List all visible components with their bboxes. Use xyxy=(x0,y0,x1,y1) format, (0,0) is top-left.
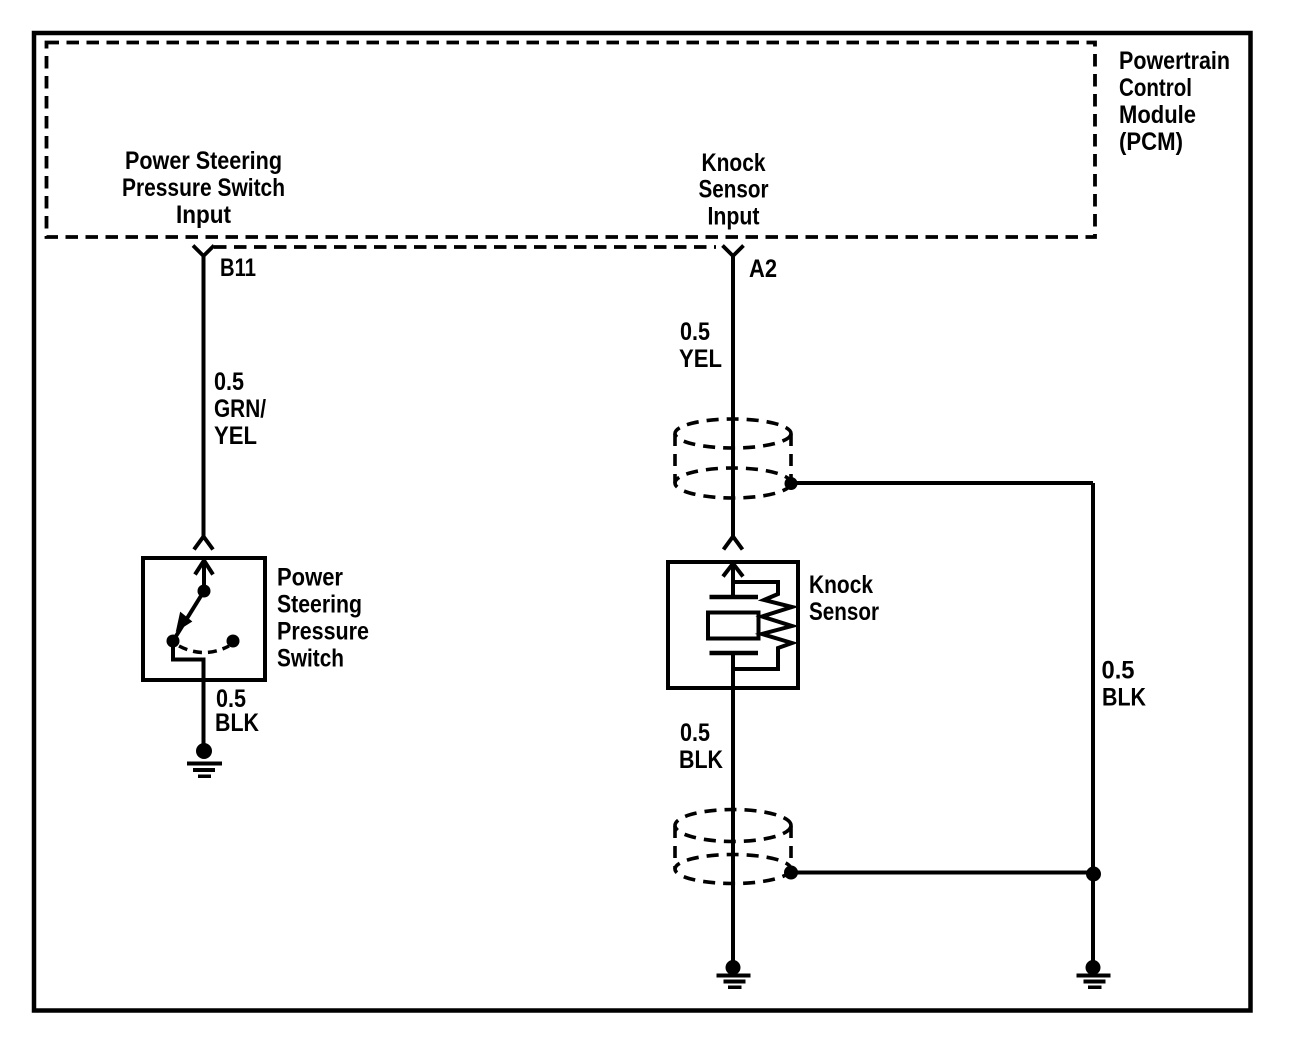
wire B11 to switch xyxy=(202,256,206,536)
svg-text:Switch: Switch xyxy=(277,645,344,673)
ground G1 xyxy=(187,743,222,778)
svg-text:0.5: 0.5 xyxy=(680,318,710,346)
svg-text:Input: Input xyxy=(176,201,232,229)
switch arrow to box top xyxy=(202,562,206,591)
svg-text:0.5: 0.5 xyxy=(214,368,244,396)
label 0.5 BLK right xyxy=(1102,657,1147,712)
svg-text:0.5: 0.5 xyxy=(1102,657,1135,685)
svg-text:Pressure Switch: Pressure Switch xyxy=(122,174,285,202)
switch contact dot upper xyxy=(198,585,211,598)
knock sensor B box xyxy=(668,562,798,688)
svg-text:Control: Control xyxy=(1119,74,1192,102)
svg-text:BLK: BLK xyxy=(679,746,723,774)
piezo bottom plate xyxy=(710,651,759,656)
svg-text:YEL: YEL xyxy=(214,422,257,450)
ground G3 (right) xyxy=(1077,960,1111,989)
svg-text:GRN/: GRN/ xyxy=(214,395,266,423)
shield connector C1 (upper dashed cylinder) xyxy=(675,419,791,498)
svg-text:(PCM): (PCM) xyxy=(1119,128,1183,156)
svg-text:BLK: BLK xyxy=(1102,684,1146,712)
junction dot on shield C2 xyxy=(784,866,798,880)
wire from bottom plate through box bottom xyxy=(731,653,735,810)
shield connector C2 (lower dashed cylinder) xyxy=(675,810,791,884)
label Power Steering Pressure Switch xyxy=(277,564,369,673)
wire from C2 right to junction xyxy=(791,871,1093,875)
label Knock Sensor Input xyxy=(699,149,769,231)
svg-text:Power Steering: Power Steering xyxy=(125,147,282,175)
wire A2 to knock sensor xyxy=(731,256,735,536)
svg-text:Module: Module xyxy=(1119,101,1196,129)
piezo top plate xyxy=(710,595,759,600)
svg-text:0.5: 0.5 xyxy=(680,719,710,747)
wire label 0.5 GRN/YEL xyxy=(214,368,266,450)
switch internal wire to box bottom xyxy=(173,646,204,680)
connector chevron above switch xyxy=(194,537,213,550)
svg-text:Sensor: Sensor xyxy=(809,598,879,626)
knock sensor arrow to box top xyxy=(731,565,735,597)
svg-text:Powertrain: Powertrain xyxy=(1119,47,1230,75)
wire label 0.5 YEL xyxy=(679,318,722,373)
junction dot right xyxy=(1086,867,1101,882)
wire through C2 down to ground xyxy=(731,810,735,962)
wire from C1 right to vertical run xyxy=(791,481,1093,485)
switch movable arm with arrowhead xyxy=(173,591,204,641)
svg-text:Power: Power xyxy=(277,564,343,592)
switch S1 Power Steering Pressure Switch box xyxy=(143,558,265,680)
pin A2 connector Y xyxy=(723,246,744,257)
svg-text:Sensor: Sensor xyxy=(699,176,769,204)
piezo crystal rectangle xyxy=(708,613,759,639)
connector dashed line between pins B11 and A2 xyxy=(214,245,716,249)
connector chevron above knock sensor xyxy=(724,537,743,550)
svg-text:B11: B11 xyxy=(220,254,256,282)
wire junction to ground right xyxy=(1091,874,1095,962)
svg-text:A2: A2 xyxy=(749,255,777,283)
svg-text:Input: Input xyxy=(708,203,761,231)
vertical wire right side xyxy=(1091,483,1095,873)
label Knock Sensor xyxy=(809,571,879,626)
label Power Steering Pressure Switch Input xyxy=(122,147,285,229)
svg-text:Knock: Knock xyxy=(809,571,873,599)
switch contact dot lower-left xyxy=(167,635,180,648)
svg-text:Steering: Steering xyxy=(277,591,362,619)
label Powertrain Control Module (PCM) xyxy=(1119,47,1230,156)
svg-text:BLK: BLK xyxy=(215,709,259,737)
junction dot on shield C1 xyxy=(785,477,798,490)
pin B11 connector Y xyxy=(193,246,214,257)
wire switch to ground xyxy=(202,680,206,746)
svg-text:Knock: Knock xyxy=(702,149,766,177)
knock sensor resistor branch xyxy=(733,582,792,669)
switch dashed travel arc xyxy=(179,646,229,653)
ground G2 (center) xyxy=(717,960,751,989)
PCM dashed box xyxy=(47,43,1096,238)
wire label 0.5 BLK xyxy=(215,685,259,737)
svg-text:Pressure: Pressure xyxy=(277,618,369,646)
wire label 0.5 BLK center xyxy=(679,719,723,774)
svg-text:YEL: YEL xyxy=(679,345,722,373)
switch contact dot right xyxy=(227,635,240,648)
